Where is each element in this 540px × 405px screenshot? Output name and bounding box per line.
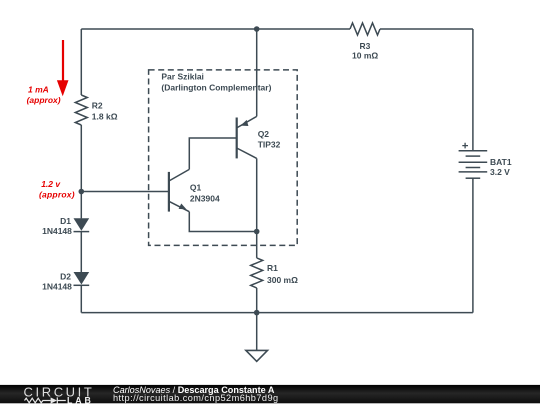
wire Q2 emitter to top rail [256,29,258,116]
wire left rail upper [80,29,82,95]
svg-text:Q2: Q2 [258,129,270,139]
svg-text:R3: R3 [360,41,371,51]
svg-text:BAT1: BAT1 [490,157,512,167]
svg-text:(Darlington Complementar): (Darlington Complementar) [161,82,271,92]
svg-text:1N4148: 1N4148 [42,282,72,292]
wire right rail lower [472,178,474,312]
node emitter junction [254,229,260,235]
wire Q2 collector down to junction [256,158,258,231]
svg-text:TIP32: TIP32 [258,139,281,149]
wire left rail R2 to base node [80,125,82,192]
current arrow 1 mA [27,40,69,105]
svg-text:10 mΩ: 10 mΩ [352,51,378,61]
svg-text:R2: R2 [92,101,103,111]
footer logo CIRCUIT LAB [24,384,95,405]
svg-text:Par Sziklai: Par Sziklai [161,71,204,81]
svg-text:2N3904: 2N3904 [190,193,220,203]
wire D1 to D2 [80,232,82,272]
svg-text:Q1: Q1 [190,183,202,193]
wire top rail left segment [81,28,350,30]
wire right rail upper [472,29,474,151]
resistor R3 [350,23,380,61]
wire R1 to bottom rail [256,288,258,313]
resistor R2 [75,95,117,125]
node voltage label 1.2 v [39,179,75,200]
svg-text:(approx): (approx) [39,190,75,200]
svg-text:R1: R1 [267,263,278,273]
node base 1.2v [79,189,85,195]
svg-text:3.2 V: 3.2 V [490,167,510,177]
svg-text:1 mA: 1 mA [28,84,49,94]
resistor R1 [251,258,298,288]
svg-text:http://circuitlab.com/cnp52m6h: http://circuitlab.com/cnp52m6hb7d9g [113,393,279,403]
svg-text:300 mΩ: 300 mΩ [267,275,298,285]
node bottom junction [254,310,260,316]
ground [246,313,268,362]
diode D2 [42,271,89,291]
node top junction [254,26,260,32]
svg-text:1.2 v: 1.2 v [41,179,61,189]
wire bottom rail [81,312,473,314]
battery BAT1 [459,143,512,178]
wire junction to R1 [256,232,258,258]
transistor Q1 [169,169,220,211]
svg-text:D1: D1 [60,216,71,226]
footer credit text [113,385,279,403]
wire Q1 emitter to junction [189,212,256,232]
wire top rail right segment [380,28,473,30]
transistor Q2 [237,116,281,158]
footer bar [0,385,540,403]
svg-text:D2: D2 [60,271,71,281]
wire Q1 collector to Q2 base [189,138,236,169]
svg-text:1.8 kΩ: 1.8 kΩ [92,111,118,121]
svg-text:LAB: LAB [67,395,94,405]
annotation dashed box Par Sziklai [149,70,298,246]
diode D1 [42,216,89,236]
wire left rail lower [80,285,82,312]
wire base node to D1 [80,192,82,219]
svg-text:1N4148: 1N4148 [42,226,72,236]
wire base node to Q1 base [81,191,169,193]
svg-text:(approx): (approx) [27,95,61,105]
